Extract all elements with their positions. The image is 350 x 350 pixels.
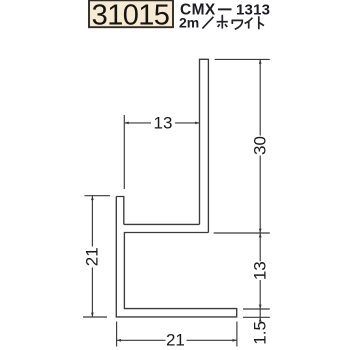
svg-text:30: 30 xyxy=(250,136,269,155)
svg-text:2m: 2m xyxy=(179,14,199,30)
svg-text:21: 21 xyxy=(83,247,102,266)
svg-text:21: 21 xyxy=(166,330,185,349)
svg-text:1313: 1313 xyxy=(236,2,270,19)
svg-text:13: 13 xyxy=(154,113,173,132)
svg-text:13: 13 xyxy=(250,261,269,280)
svg-text:1.5: 1.5 xyxy=(251,321,270,345)
svg-text:31015: 31015 xyxy=(92,0,170,31)
